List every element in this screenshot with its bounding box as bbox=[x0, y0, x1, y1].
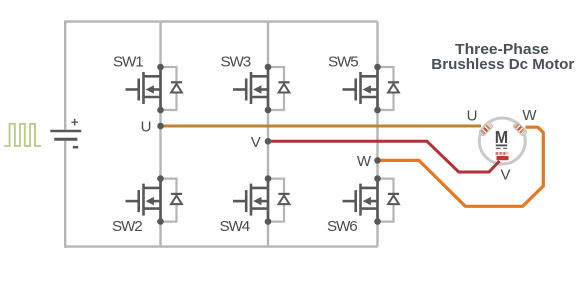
wire: top DC bus rail bbox=[65, 20, 377, 22]
svg-text:SW1: SW1 bbox=[113, 54, 143, 71]
motor winding pad V bbox=[495, 152, 509, 160]
node W junction dot bbox=[374, 157, 381, 164]
transistor SW1 bbox=[126, 64, 164, 114]
svg-text:SW5: SW5 bbox=[328, 54, 358, 71]
wire: phase leg B (x=268) bbox=[267, 22, 269, 247]
transistor SW2 bbox=[126, 175, 164, 225]
svg-text:SW4: SW4 bbox=[220, 218, 250, 235]
svg-text:SW6: SW6 bbox=[327, 218, 357, 235]
transistor SW4 bbox=[233, 175, 271, 225]
svg-text:SW3: SW3 bbox=[221, 54, 251, 71]
motor winding pad U bbox=[479, 122, 493, 136]
transistor SW5 bbox=[343, 64, 381, 114]
body diode of SW5 bbox=[378, 67, 400, 110]
wire: left bus (battery branch, lower) bbox=[64, 141, 66, 248]
PWM input waveform bbox=[4, 124, 41, 146]
svg-text:W: W bbox=[357, 153, 372, 170]
body diode of SW4 bbox=[268, 179, 290, 222]
svg-text:SW2: SW2 bbox=[112, 218, 142, 235]
wire: phase V (red) from V node to motor bbox=[268, 141, 500, 172]
wire: left bus (battery branch, upper) bbox=[64, 20, 66, 129]
battery V1 positive plate bbox=[50, 130, 81, 132]
wire: phase U (orange) from U node to motor bbox=[161, 125, 482, 128]
svg-text:V: V bbox=[251, 134, 261, 151]
svg-text:U: U bbox=[141, 119, 152, 136]
svg-text:M: M bbox=[495, 127, 508, 147]
body diode of SW3 bbox=[268, 67, 290, 110]
wire: bottom DC bus rail bbox=[65, 245, 377, 247]
svg-text:V: V bbox=[500, 166, 510, 183]
transistor SW3 bbox=[233, 64, 271, 114]
wire: phase W (orange) from W node to motor bbox=[378, 127, 544, 206]
motor symbol dashes bbox=[496, 147, 507, 149]
battery minus label bbox=[73, 146, 78, 149]
body diode of SW6 bbox=[378, 179, 400, 222]
wire: phase leg C / right bus (x=377.5) bbox=[376, 22, 378, 247]
node V junction dot bbox=[265, 138, 272, 145]
transistor SW6 bbox=[343, 175, 381, 225]
svg-text:W: W bbox=[522, 107, 537, 124]
body diode of SW1 bbox=[161, 67, 183, 110]
body diode of SW2 bbox=[161, 179, 183, 222]
node U junction dot bbox=[157, 123, 164, 130]
svg-text:+: + bbox=[71, 114, 79, 129]
motor body circle bbox=[479, 118, 525, 164]
wire: phase leg A (x=160.5) bbox=[159, 22, 161, 247]
battery V1 negative plate bbox=[54, 138, 77, 141]
svg-text:U: U bbox=[467, 108, 478, 125]
svg-text:Brushless Dc Motor: Brushless Dc Motor bbox=[431, 56, 574, 73]
motor winding pad W bbox=[513, 122, 527, 136]
motor symbol underline bbox=[496, 144, 507, 146]
